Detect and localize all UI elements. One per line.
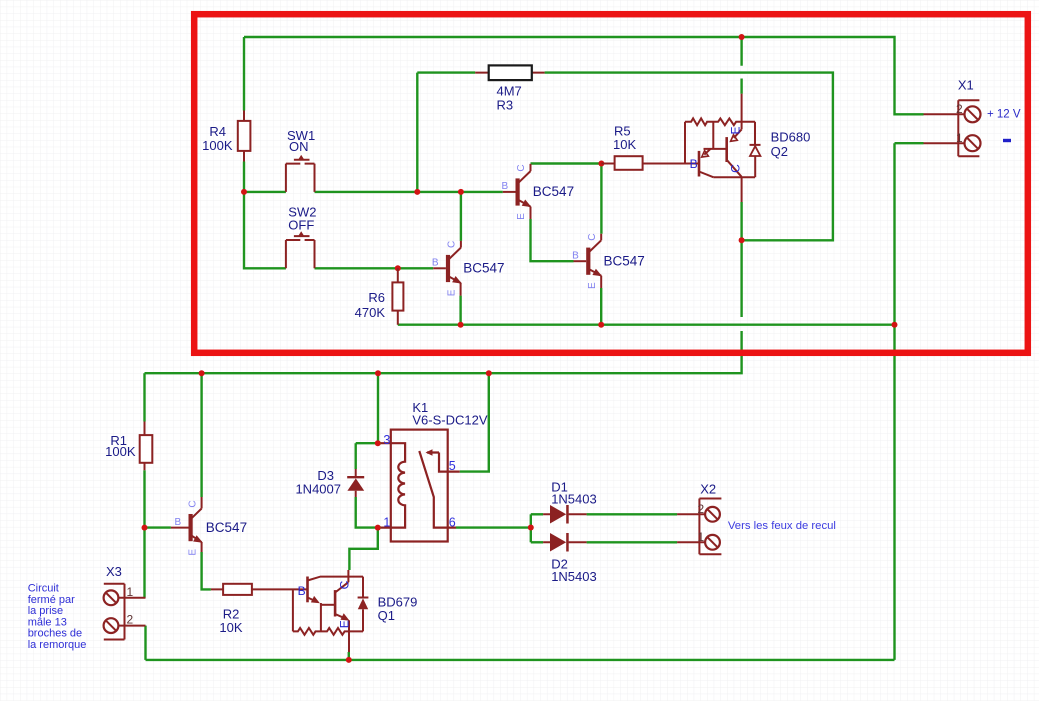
wire R3 output to Q2 collector loop [545, 73, 833, 241]
resistor R2 10K [211, 584, 307, 635]
wire diode junction split D1/D2 [530, 514, 532, 542]
wire +12V top rail from R4 to X1 pin2 [244, 37, 924, 114]
svg-text:BC547: BC547 [463, 261, 504, 276]
wire E pin of Q2 upper (with hop gap at R3 row) [740, 37, 742, 94]
svg-text:B: B [298, 584, 306, 598]
wire relay pin3 row to D3 [356, 442, 381, 444]
junction relay pin1/D3/Q1 collector [375, 525, 381, 531]
wire relay pin5 riser [460, 373, 489, 471]
svg-text:10K: 10K [219, 620, 242, 635]
wire D1 anode stub [531, 513, 543, 515]
label minus [1003, 139, 1011, 142]
wire R3 row left riser to row192 [417, 73, 475, 192]
wire BC547 T4 emitter to R2 [202, 552, 211, 589]
svg-text:C: C [188, 500, 199, 507]
wire D3 anode top stub [355, 443, 357, 469]
junction right rail crossing [892, 322, 898, 328]
junction R3 riser on row192 [414, 189, 420, 195]
Q1 driver emitter arrow [311, 596, 320, 603]
transistor T4 BC547 (bottom left) [171, 497, 247, 556]
Q1 diode (internal) [358, 598, 368, 609]
junction T3 emitter on bottom rail [598, 322, 604, 328]
svg-text:C: C [587, 233, 598, 240]
svg-text:2: 2 [956, 102, 963, 116]
svg-text:+ 12 V: + 12 V [987, 109, 1021, 121]
wire Q1 emitter to ground rail [348, 652, 350, 660]
svg-text:X1: X1 [958, 78, 974, 93]
diode D1 1N5403 [543, 480, 597, 524]
svg-text:B: B [501, 181, 508, 192]
svg-text:broches de: broches de [28, 628, 82, 640]
wire BC547 T2 collector riser [460, 192, 462, 241]
svg-text:E: E [447, 289, 458, 296]
transistor T1 BC547 (top middle) [501, 164, 574, 220]
svg-text:B: B [174, 517, 181, 528]
svg-text:E: E [729, 126, 743, 134]
svg-text:B: B [572, 251, 579, 262]
highlight frame (red rectangle) [194, 14, 1028, 353]
svg-text:2: 2 [698, 502, 705, 516]
junction R1/T4 base/X3 pin1 [142, 525, 148, 531]
wire R4 top stub [243, 37, 245, 111]
wire D2 anode stub [531, 541, 543, 543]
K1 contact arrow [426, 449, 433, 455]
svg-text:C: C [516, 164, 527, 171]
svg-text:BC547: BC547 [533, 184, 574, 199]
junction relay pin3 riser on mid rail [375, 370, 381, 376]
wire D2 cathode to X2 pin1 [587, 541, 678, 543]
svg-text:BD680: BD680 [771, 129, 811, 144]
switch SW1 ON [286, 157, 315, 192]
svg-text:3: 3 [383, 433, 390, 447]
svg-text:6: 6 [449, 516, 456, 530]
junction R4/SW1/SW2 [241, 189, 247, 195]
svg-text:C: C [338, 580, 352, 589]
svg-text:1N5403: 1N5403 [551, 492, 597, 507]
svg-text:1N5403: 1N5403 [551, 569, 597, 584]
junction T2 collector on row192 [458, 189, 464, 195]
transistor T2 BC547 (left of pair) [432, 241, 505, 296]
Q2 upper emitter arrow [731, 135, 738, 142]
svg-text:B: B [432, 258, 439, 269]
transistor T3 BC547 (right of pair) [572, 233, 645, 288]
diode D2 1N5403 [543, 533, 597, 584]
svg-text:R4: R4 [209, 124, 226, 139]
wire junction to BC547 T4 collector [200, 373, 202, 497]
wire BC547 T1 emitter to T3 base [531, 219, 574, 261]
wire D1 cathode to X2 pin2 [587, 513, 678, 515]
wire junction R5 down to T3 collector [600, 164, 602, 234]
wire BC547 T3 emitter to bottom rail [600, 288, 602, 325]
svg-text:E: E [516, 213, 527, 220]
connector X2 [677, 499, 721, 555]
wire X3 pin2 down to ground rail [144, 626, 146, 660]
transistor Q2 BD680 (PNP darlington) [685, 94, 761, 202]
transistor Q1 BD679 (NPN darlington) [293, 570, 369, 652]
svg-text:Q1: Q1 [378, 608, 395, 623]
junction Q1 emitter on ground rail [346, 657, 352, 663]
Q2 lower emitter arrow [702, 151, 709, 158]
svg-text:R6: R6 [368, 290, 385, 305]
junction D1/D2 split [528, 525, 534, 531]
svg-text:ON: ON [289, 139, 309, 154]
wire Q2 collector node to junction [740, 202, 742, 240]
resistor R5 10K [601, 124, 699, 170]
svg-text:E: E [338, 620, 352, 628]
svg-text:B: B [690, 157, 698, 171]
svg-text:100K: 100K [202, 138, 233, 153]
svg-text:X2: X2 [700, 482, 716, 497]
svg-text:BC547: BC547 [604, 253, 645, 268]
resistor R6 470K [355, 268, 404, 324]
wire bottom ground rail [146, 659, 895, 661]
svg-text:E: E [587, 282, 598, 289]
svg-text:5: 5 [449, 459, 456, 473]
svg-text:4M7: 4M7 [497, 84, 522, 99]
resistor R4 100K [202, 111, 250, 162]
svg-text:100K: 100K [105, 444, 136, 459]
connector X3 [104, 584, 146, 640]
note Circuit fermé par la prise mâle 13 broches de la remorque [28, 583, 87, 652]
wire R1 top stub [143, 373, 145, 421]
svg-text:BC547: BC547 [206, 520, 247, 535]
wire SW2 output row to BC547 base [315, 267, 434, 269]
svg-text:C: C [729, 164, 743, 173]
Q2 diode (internal) [750, 146, 760, 156]
connector X1 [924, 100, 981, 156]
svg-text:mâle 13: mâle 13 [28, 616, 67, 628]
wire relay pin1 to Q1 collector [349, 528, 377, 570]
relay K1 V6-S-DC12V [381, 430, 460, 542]
junction R5/T1 collector [598, 161, 604, 167]
svg-text:470K: 470K [355, 305, 386, 320]
resistor R3 4M7 [475, 65, 544, 112]
wire D3 bottom to relay pin1 row [356, 497, 381, 528]
wire relay pin6 to diode junction [456, 526, 531, 528]
svg-text:E: E [188, 549, 199, 556]
wire SW2 branch down from junction [244, 192, 286, 268]
junction T4 collector on mid rail [199, 370, 205, 376]
resistor R1 100K [105, 422, 152, 471]
svg-text:la remorque: la remorque [28, 639, 87, 651]
wire BC547 T2 emitter to bottom rail [459, 296, 461, 325]
wire junction down to relay pin3 [377, 373, 379, 443]
svg-text:Q2: Q2 [771, 144, 788, 159]
wire right vertical X1 pin1 to bottom rail [895, 143, 924, 660]
svg-text:V6-S-DC12V: V6-S-DC12V [412, 413, 487, 428]
svg-text:10K: 10K [613, 137, 636, 152]
junction relay pin3/D3 [375, 440, 381, 446]
svg-text:1: 1 [127, 585, 134, 599]
wire top-section bottom rail [398, 324, 895, 326]
svg-text:1: 1 [956, 131, 963, 145]
junction T2 emitter on bottom rail [458, 322, 464, 328]
svg-text:1: 1 [383, 516, 390, 530]
Q1 output emitter arrow [341, 613, 350, 620]
wire BC547 T4 base from junction [145, 526, 171, 528]
diode D3 1N4007 [295, 468, 364, 497]
svg-text:1N4007: 1N4007 [295, 481, 341, 496]
svg-text:OFF: OFF [288, 218, 314, 233]
junction relay pin5 riser on mid rail [486, 370, 492, 376]
junction Q2 collector node [739, 237, 745, 243]
svg-text:X3: X3 [106, 564, 122, 579]
junction R6 top on SW2 row [395, 265, 401, 271]
switch SW2 OFF [286, 233, 315, 268]
wire R1 bottom to X3 pin1 [143, 470, 145, 598]
junction Q2 emitter on +12 rail [739, 34, 745, 40]
svg-text:R3: R3 [497, 98, 514, 113]
svg-text:Vers les feux de recul: Vers les feux de recul [728, 520, 836, 532]
wire BC547 T1 collector row to R5 junction [531, 162, 602, 164]
svg-text:1: 1 [698, 530, 705, 544]
svg-text:C: C [447, 241, 458, 248]
wire R4 bottom to row192 junction [243, 162, 245, 192]
wire row192 SW1 net [244, 191, 503, 193]
svg-text:fermé par: fermé par [28, 594, 75, 606]
svg-text:Circuit: Circuit [28, 583, 59, 595]
svg-text:la prise: la prise [28, 605, 63, 617]
svg-text:2: 2 [127, 613, 134, 627]
wire Q2 collector down to lower rail (hop gap at top-section rail) [145, 240, 742, 373]
